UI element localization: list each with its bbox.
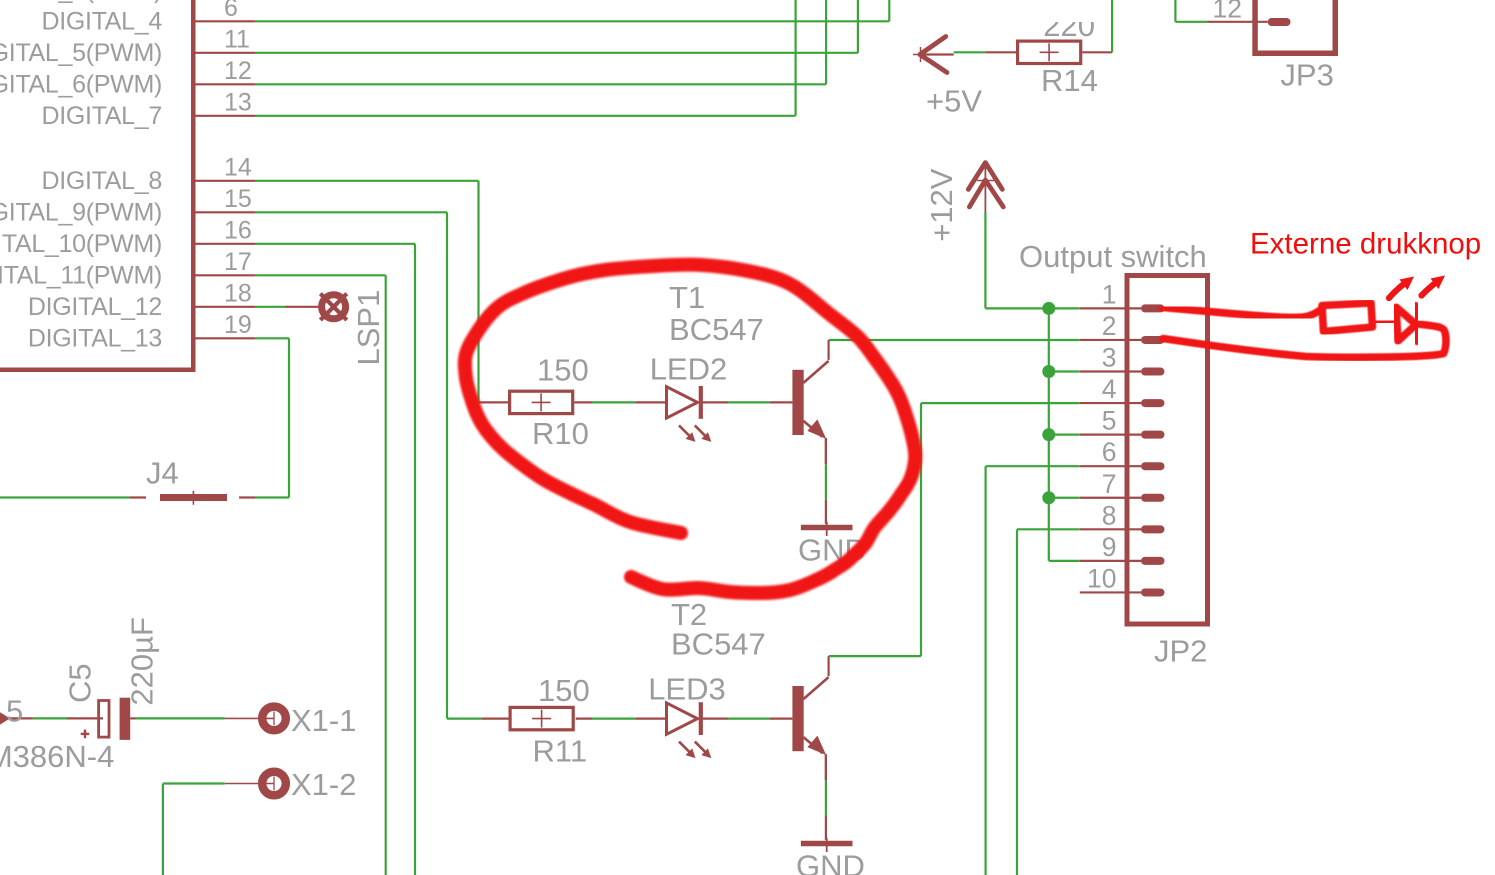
svg-text:5: 5 bbox=[6, 693, 23, 728]
svg-text:R10: R10 bbox=[532, 416, 589, 451]
svg-text:19: 19 bbox=[224, 311, 252, 339]
svg-text:15: 15 bbox=[224, 185, 252, 213]
svg-text:BC547: BC547 bbox=[669, 312, 764, 347]
svg-text:T1: T1 bbox=[669, 280, 705, 315]
svg-text:C5: C5 bbox=[63, 663, 98, 703]
svg-text:150: 150 bbox=[537, 353, 589, 388]
svg-text:J4: J4 bbox=[146, 456, 179, 491]
svg-text:Externe drukknop: Externe drukknop bbox=[1250, 228, 1481, 261]
svg-text:DIGITAL_8: DIGITAL_8 bbox=[42, 167, 163, 195]
svg-text:11: 11 bbox=[224, 26, 250, 54]
svg-text:DIGITAL_11(PWM): DIGITAL_11(PWM) bbox=[0, 261, 162, 289]
svg-text:GND: GND bbox=[796, 849, 865, 875]
svg-text:4: 4 bbox=[1102, 374, 1117, 404]
svg-text:R11: R11 bbox=[533, 734, 588, 769]
svg-text:6: 6 bbox=[1102, 437, 1117, 467]
svg-text:18: 18 bbox=[224, 280, 252, 308]
svg-text:150: 150 bbox=[538, 673, 590, 708]
svg-text:X1-1: X1-1 bbox=[291, 703, 356, 738]
svg-text:Output switch: Output switch bbox=[1019, 239, 1207, 274]
svg-text:3: 3 bbox=[1102, 343, 1117, 373]
svg-text:DIGITAL_13: DIGITAL_13 bbox=[28, 324, 162, 352]
svg-text:LED3: LED3 bbox=[648, 672, 726, 707]
svg-text:+5V: +5V bbox=[926, 84, 982, 119]
svg-text:12: 12 bbox=[224, 57, 252, 85]
svg-text:10: 10 bbox=[1087, 563, 1116, 593]
svg-text:220µF: 220µF bbox=[125, 617, 160, 706]
svg-text:+12V: +12V bbox=[924, 168, 959, 242]
svg-text:X1-2: X1-2 bbox=[291, 767, 356, 802]
svg-text:DIGITAL_10(PWM): DIGITAL_10(PWM) bbox=[0, 230, 162, 258]
svg-text:12: 12 bbox=[1213, 0, 1242, 23]
svg-text:R14: R14 bbox=[1041, 63, 1098, 98]
svg-text:DIGITAL_9(PWM): DIGITAL_9(PWM) bbox=[0, 198, 162, 226]
svg-text:16: 16 bbox=[224, 217, 252, 245]
svg-text:1: 1 bbox=[1102, 279, 1117, 309]
svg-text:M386N-4: M386N-4 bbox=[0, 739, 114, 774]
svg-text:DIGITAL_7: DIGITAL_7 bbox=[42, 102, 163, 130]
svg-text:JP3: JP3 bbox=[1280, 58, 1333, 93]
svg-text:9: 9 bbox=[1102, 532, 1117, 562]
svg-text:14: 14 bbox=[224, 154, 252, 182]
svg-text:DIGITAL_4: DIGITAL_4 bbox=[42, 7, 163, 35]
svg-text:7: 7 bbox=[1102, 469, 1117, 499]
svg-text:LSP1: LSP1 bbox=[351, 290, 386, 366]
svg-text:13: 13 bbox=[224, 89, 252, 117]
svg-text:DIGITAL_12: DIGITAL_12 bbox=[28, 293, 162, 321]
svg-text:17: 17 bbox=[224, 248, 252, 276]
svg-text:DIGITAL_3(PWM): DIGITAL_3(PWM) bbox=[0, 0, 162, 4]
svg-text:5: 5 bbox=[1102, 406, 1117, 436]
svg-text:8: 8 bbox=[1102, 500, 1117, 530]
svg-text:BC547: BC547 bbox=[671, 627, 766, 662]
svg-text:DIGITAL_5(PWM): DIGITAL_5(PWM) bbox=[0, 39, 162, 67]
svg-text:6: 6 bbox=[224, 0, 238, 22]
svg-text:2: 2 bbox=[1102, 311, 1117, 341]
svg-text:JP2: JP2 bbox=[1154, 634, 1207, 669]
svg-text:LED2: LED2 bbox=[650, 352, 728, 387]
svg-text:DIGITAL_6(PWM): DIGITAL_6(PWM) bbox=[0, 70, 162, 98]
